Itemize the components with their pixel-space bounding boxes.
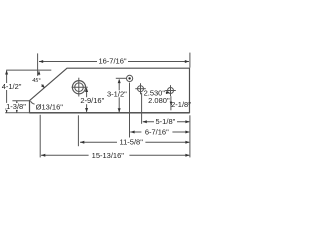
svg-text:2-9/16": 2-9/16" [80,96,104,105]
svg-text:5-1/8": 5-1/8" [156,117,176,126]
svg-text:4-1/2": 4-1/2" [2,82,22,91]
svg-text:2.080": 2.080" [148,96,170,105]
svg-text:2-1/8": 2-1/8" [171,100,191,109]
svg-text:11-5/8": 11-5/8" [120,138,144,147]
svg-text:1-3/8": 1-3/8" [6,102,26,111]
svg-text:6-7/16": 6-7/16" [145,128,169,137]
svg-text:3-1/2": 3-1/2" [107,89,127,98]
svg-text:15-13/16": 15-13/16" [92,151,125,160]
svg-text:45°: 45° [32,78,41,84]
svg-text:16-7/16": 16-7/16" [98,57,126,66]
svg-text:Ø13/16": Ø13/16" [36,103,64,112]
